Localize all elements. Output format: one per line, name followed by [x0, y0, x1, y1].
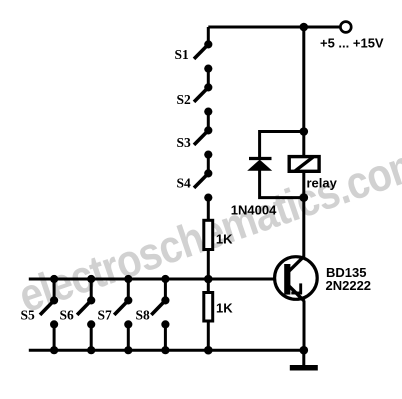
wire junction to R2: [207, 279, 210, 292]
svg-text:S5: S5: [21, 307, 36, 322]
node S7 upper contact: [124, 296, 132, 304]
relay coil diagonal: [295, 157, 314, 171]
node S8 bottom: [161, 346, 169, 354]
svg-text:S3: S3: [177, 135, 192, 150]
node S6 upper contact: [87, 296, 95, 304]
svg-text:relay: relay: [307, 175, 338, 190]
svg-text:S8: S8: [136, 307, 151, 322]
transistor Q1 circle: [275, 257, 318, 300]
wire S8 to bottom rail: [164, 324, 167, 350]
wire emitter to bottom rail: [303, 301, 306, 351]
wire S3-S4: [207, 155, 210, 174]
svg-text:+5 ... +15V: +5 ... +15V: [320, 35, 384, 50]
wire S6 to bottom rail: [90, 324, 93, 350]
resistor R2 1K: [204, 293, 213, 322]
wire S1 feed: [207, 27, 210, 45]
node S8 top: [161, 275, 169, 283]
node diode bottom junction: [300, 193, 309, 202]
wire base rail: [29, 278, 275, 281]
switch S1 blade: [194, 44, 208, 59]
node S2 lower contact: [204, 108, 212, 116]
wire top rail: [208, 26, 340, 29]
node S5 top: [50, 275, 58, 283]
switch S6 blade: [77, 300, 91, 315]
node S1 upper contact: [204, 40, 212, 48]
resistor R1 1K: [204, 220, 213, 249]
ground: [290, 365, 318, 371]
wire R2 to bottom rail: [207, 323, 210, 351]
terminal +V: [340, 22, 351, 33]
switch S2 blade: [194, 87, 208, 102]
node S6 bottom: [87, 346, 95, 354]
svg-text:2N2222: 2N2222: [326, 278, 372, 293]
node S1 lower contact: [204, 65, 212, 73]
switch S7 blade: [114, 300, 128, 315]
node S5 upper contact: [50, 296, 58, 304]
node S3 lower contact: [204, 151, 212, 159]
wire S5 to bottom rail: [53, 324, 56, 350]
node S2 upper contact: [204, 83, 212, 91]
wire S8 feed: [164, 279, 167, 300]
transistor Q1 emitter stroke: [289, 286, 304, 301]
wire R1 to junction: [207, 251, 210, 279]
wire S7 feed: [127, 279, 130, 300]
wire S7 to bottom rail: [127, 324, 130, 350]
node S4 lower contact: [204, 194, 212, 202]
wire diode branch bottom: [260, 170, 304, 198]
node S6 top: [87, 275, 95, 283]
relay coil box: [289, 157, 319, 172]
node S6 lower contact: [87, 320, 95, 328]
node S5 lower contact: [50, 320, 58, 328]
node emitter bottom rail junction: [300, 346, 309, 355]
svg-text:1K: 1K: [216, 300, 233, 315]
node S3 upper contact: [204, 126, 212, 134]
wire S5 feed: [53, 279, 56, 300]
svg-text:S1: S1: [175, 47, 190, 62]
switch S4 blade: [194, 173, 208, 188]
svg-text:S4: S4: [177, 175, 192, 190]
svg-text:1N4004: 1N4004: [231, 203, 277, 218]
node S8 lower contact: [161, 320, 169, 328]
wire S6 feed: [90, 279, 93, 300]
transistor Q1 base bar: [284, 264, 290, 295]
diode D1 cathode bar: [249, 157, 272, 160]
transistor Q1 emitter arrow barb horizontal: [291, 292, 302, 295]
node S8 upper contact: [161, 296, 169, 304]
svg-text:1K: 1K: [216, 231, 233, 246]
switch S5 blade: [40, 300, 54, 315]
svg-text:S2: S2: [177, 92, 192, 107]
node S7 top: [124, 275, 132, 283]
node R2 bottom rail junction: [204, 346, 213, 355]
wire S2-S3: [207, 112, 210, 131]
node S7 bottom: [124, 346, 132, 354]
wire main vertical (top rail to relay): [302, 27, 305, 157]
transistor Q1 emitter arrow barb vertical: [299, 283, 302, 294]
svg-text:S6: S6: [60, 307, 75, 322]
node diode top junction: [300, 127, 309, 136]
wire S1-S2: [207, 69, 210, 88]
diode D1 triangle: [247, 160, 272, 171]
node S7 lower contact: [124, 320, 132, 328]
wire S4 to R1: [207, 198, 210, 220]
wire diode branch top: [260, 132, 304, 159]
node top rail junction: [300, 23, 309, 32]
node base junction: [204, 275, 213, 284]
wire ground stub: [302, 350, 305, 366]
node S4 upper contact: [204, 169, 212, 177]
wire bottom rail: [29, 349, 304, 352]
node S5 bottom: [50, 346, 58, 354]
switch S3 blade: [194, 130, 208, 145]
switch S8 blade: [151, 300, 165, 315]
wire relay to transistor collector: [302, 173, 305, 258]
svg-text:S7: S7: [98, 307, 113, 322]
transistor Q1 collector stroke: [289, 256, 304, 271]
